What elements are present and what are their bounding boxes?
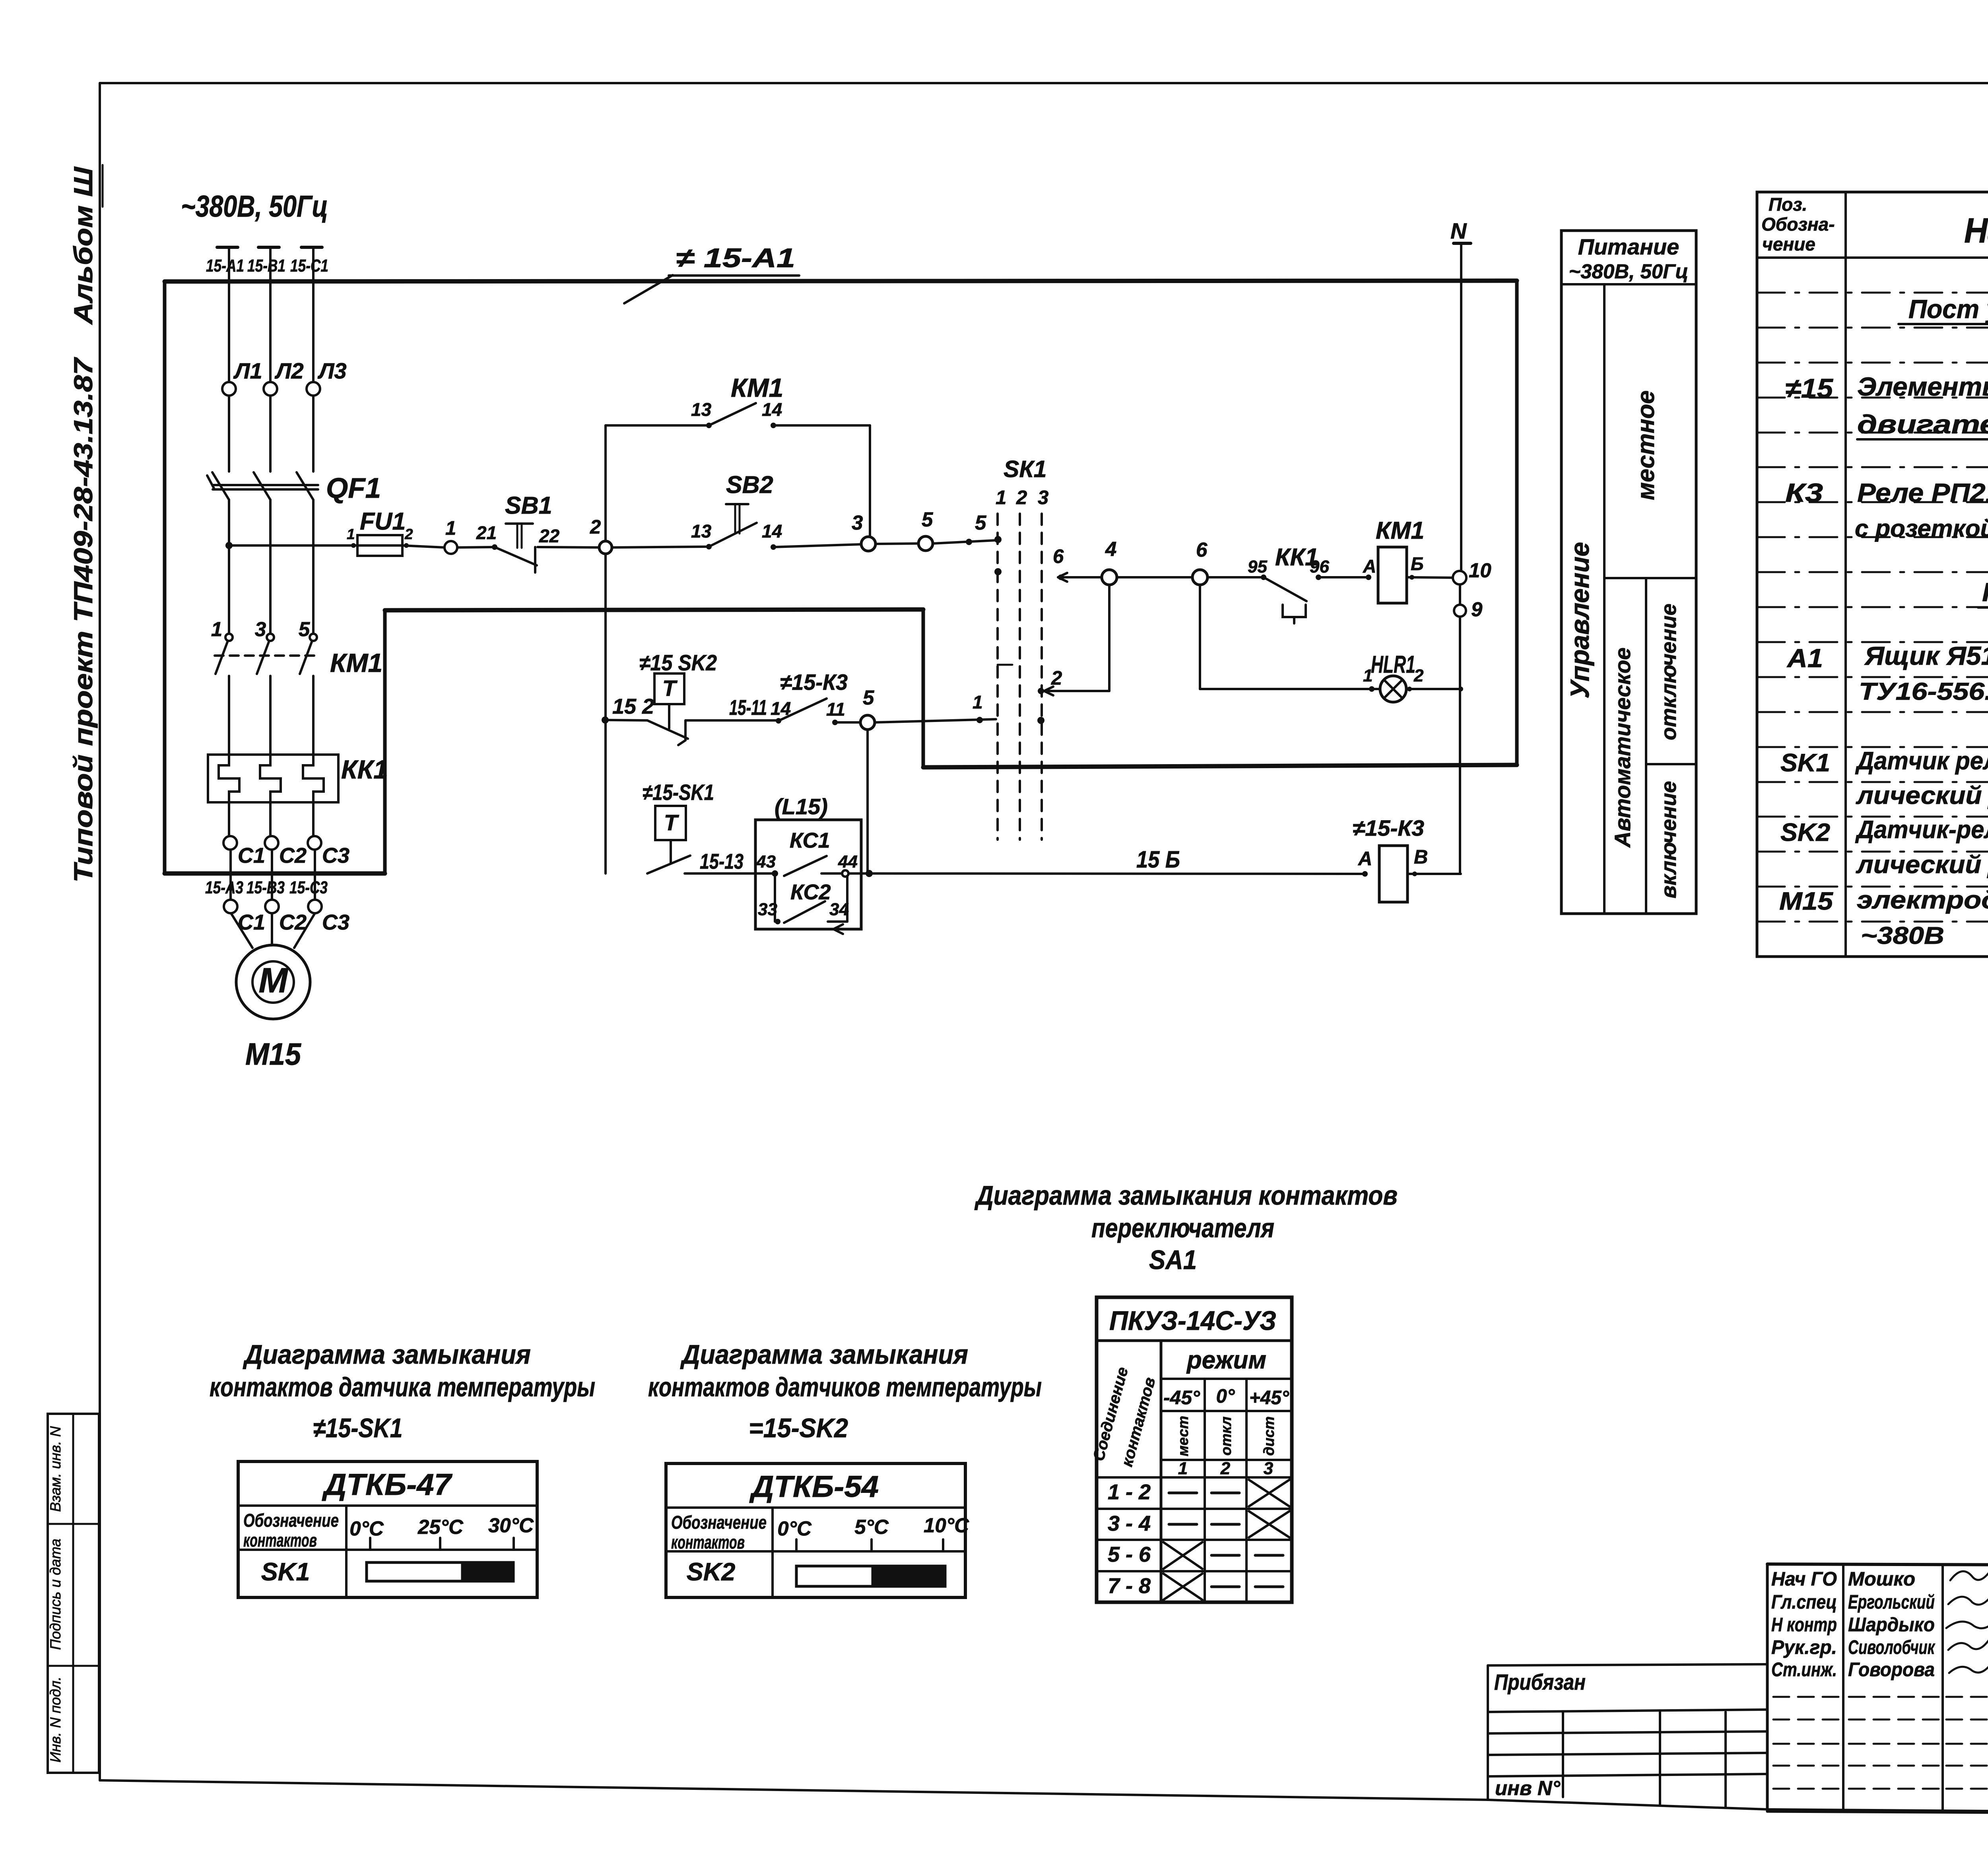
svg-text:КС1: КС1: [790, 829, 830, 852]
svg-text:Датчик реле температуры Бимета: Датчик реле температуры Биметал-: [1855, 747, 1988, 775]
svg-text:0°С: 0°С: [777, 1517, 812, 1540]
svg-text:1: 1: [996, 487, 1006, 508]
svg-text:лический ДТКБ-47 ТУ25-02-888-: лический ДТКБ-47 ТУ25-02-888-75Е: [1856, 782, 1988, 809]
svg-text:ТУ16-556.042-76: ТУ16-556.042-76: [1859, 678, 1988, 705]
svg-text:SK1: SK1: [261, 1558, 310, 1586]
svg-text:Питание: Питание: [1578, 234, 1679, 259]
svg-text:2: 2: [1220, 1459, 1231, 1478]
svg-text:-45°: -45°: [1163, 1387, 1200, 1409]
svg-text:SK2: SK2: [687, 1558, 736, 1586]
svg-text:13: 13: [691, 399, 712, 420]
svg-text:15-В1: 15-В1: [247, 256, 285, 276]
svg-text:Л3: Л3: [317, 358, 347, 383]
svg-text:5 - 6: 5 - 6: [1108, 1543, 1151, 1566]
svg-text:Диаграмма замыкания: Диаграмма замыкания: [680, 1339, 968, 1370]
svg-text:HLR1: HLR1: [1371, 651, 1415, 678]
svg-text:Ергольский: Ергольский: [1848, 1591, 1935, 1613]
svg-text:Б: Б: [1411, 553, 1424, 574]
svg-text:N: N: [1450, 218, 1467, 243]
svg-text:1: 1: [347, 526, 355, 542]
svg-text:Типовой проект ТП409-28-43.13.: Типовой проект ТП409-28-43.13.87 Альбом …: [68, 166, 98, 883]
svg-text:Управление: Управление: [1565, 542, 1594, 699]
svg-text:А1: А1: [1786, 643, 1823, 673]
svg-text:15-В3: 15-В3: [247, 878, 285, 897]
svg-text:контактов: контактов: [243, 1530, 317, 1551]
svg-text:Нач ГО: Нач ГО: [1771, 1568, 1837, 1590]
svg-text:6: 6: [1053, 546, 1064, 567]
svg-text:30°С: 30°С: [488, 1514, 534, 1537]
svg-text:Взам. инв. N: Взам. инв. N: [47, 1426, 64, 1512]
svg-text:М: М: [258, 961, 288, 1000]
svg-text:чение: чение: [1762, 234, 1815, 254]
svg-text:5: 5: [863, 686, 874, 709]
svg-text:3 - 4: 3 - 4: [1108, 1512, 1151, 1535]
svg-text:5: 5: [975, 511, 986, 534]
svg-text:SA1: SA1: [1149, 1245, 1197, 1275]
svg-text:13: 13: [691, 521, 712, 541]
svg-text:+45°: +45°: [1249, 1387, 1289, 1409]
svg-text:ПКУЗ-14С-УЗ: ПКУЗ-14С-УЗ: [1109, 1306, 1276, 1336]
svg-text:4: 4: [1105, 538, 1116, 560]
svg-text:≠15-SK1: ≠15-SK1: [643, 780, 714, 805]
svg-text:1: 1: [211, 618, 222, 640]
svg-text:7 - 8: 7 - 8: [1108, 1574, 1151, 1598]
svg-text:Прибязан: Прибязан: [1494, 1669, 1586, 1694]
svg-text:2: 2: [590, 516, 601, 538]
svg-text:3: 3: [1038, 487, 1048, 508]
svg-text:ДТКБ-54: ДТКБ-54: [749, 1470, 879, 1504]
svg-text:Диаграмма замыкания контактов: Диаграмма замыкания контактов: [975, 1180, 1398, 1211]
svg-text:SK2: SK2: [1780, 819, 1830, 846]
svg-text:~380В, 50Гц: ~380В, 50Гц: [181, 190, 328, 223]
svg-text:режим: режим: [1186, 1346, 1266, 1374]
svg-text:инв N°: инв N°: [1495, 1777, 1561, 1799]
svg-text:Реле РП21-220УХЛ4 ~220В,50Гц: Реле РП21-220УХЛ4 ~220В,50Гц: [1857, 478, 1988, 507]
svg-text:15 Б: 15 Б: [1136, 846, 1180, 873]
svg-text:SB2: SB2: [726, 471, 773, 498]
svg-text:10°С: 10°С: [924, 1514, 969, 1537]
svg-text:ДТКБ-47: ДТКБ-47: [322, 1468, 453, 1502]
svg-text:≠15-SK1: ≠15-SK1: [313, 1413, 403, 1443]
svg-text:Шардыко: Шардыко: [1848, 1614, 1935, 1636]
svg-text:двигателем М15: двигателем М15: [1857, 410, 1988, 439]
svg-text:(L15): (L15): [775, 794, 828, 819]
svg-text:КМ1: КМ1: [330, 648, 382, 677]
svg-text:3: 3: [255, 618, 266, 640]
svg-text:11: 11: [826, 699, 845, 720]
svg-text:≠15 SK2: ≠15 SK2: [639, 650, 717, 675]
svg-text:лический ДТКБ-54 ТУ25-02-888-: лический ДТКБ-54 ТУ25-02-888-75Е: [1856, 851, 1988, 879]
svg-text:КМ1: КМ1: [1376, 517, 1424, 544]
svg-text:15-А3: 15-А3: [205, 878, 243, 897]
svg-text:Мошко: Мошко: [1848, 1568, 1915, 1590]
svg-text:0°С: 0°С: [349, 1517, 384, 1540]
svg-text:Обозна-: Обозна-: [1761, 214, 1835, 235]
svg-text:откл: откл: [1218, 1417, 1234, 1456]
svg-text:Обозначение: Обозначение: [671, 1512, 767, 1533]
svg-text:По месту: По месту: [1982, 577, 1988, 607]
svg-text:44: 44: [838, 852, 858, 871]
svg-text:Инв. N подл.: Инв. N подл.: [47, 1677, 64, 1762]
svg-text:А: А: [1363, 556, 1376, 576]
svg-text:Сиволобчик: Сиволобчик: [1848, 1637, 1936, 1658]
svg-text:14: 14: [762, 521, 782, 541]
svg-text:25°С: 25°С: [417, 1516, 464, 1538]
svg-text:3: 3: [852, 511, 863, 534]
svg-text:15-13: 15-13: [700, 850, 744, 873]
svg-text:9: 9: [1471, 598, 1483, 621]
svg-text:С1: С1: [238, 844, 265, 868]
svg-text:96: 96: [1310, 557, 1329, 576]
svg-text:33: 33: [758, 900, 777, 919]
svg-text:FU1: FU1: [360, 508, 406, 535]
svg-text:SK1: SK1: [1780, 749, 1830, 777]
svg-text:С3: С3: [322, 844, 349, 868]
svg-text:Н контр: Н контр: [1771, 1614, 1837, 1636]
svg-text:22: 22: [539, 526, 560, 546]
svg-text:QF1: QF1: [326, 473, 381, 504]
svg-text:Рук.гр.: Рук.гр.: [1771, 1637, 1837, 1658]
svg-text:2: 2: [404, 526, 413, 542]
svg-text:местное: местное: [1632, 390, 1659, 500]
svg-text:15 2: 15 2: [612, 695, 654, 718]
svg-text:95: 95: [1248, 557, 1267, 576]
svg-text:Датчик-реле температуры Бимета: Датчик-реле температуры Биметал-: [1855, 816, 1988, 844]
svg-text:1: 1: [973, 692, 983, 712]
svg-text:5: 5: [299, 618, 310, 640]
svg-text:контактов датчика температуры: контактов датчика температуры: [210, 1372, 595, 1402]
svg-text:15-11: 15-11: [729, 696, 767, 720]
svg-text:В: В: [1414, 846, 1428, 868]
svg-text:21: 21: [476, 522, 497, 543]
svg-text:включение: включение: [1657, 781, 1681, 898]
svg-text:≠ 15-А1: ≠ 15-А1: [676, 243, 795, 273]
svg-text:контактов датчиков температуры: контактов датчиков температуры: [648, 1372, 1042, 1402]
svg-text:SК1: SК1: [1004, 456, 1046, 482]
svg-text:10: 10: [1469, 559, 1491, 582]
svg-text:Т: Т: [662, 675, 678, 701]
svg-text:Элементы управления электро-: Элементы управления электро-: [1857, 372, 1988, 401]
svg-text:Диаграмма замыкания: Диаграмма замыкания: [243, 1339, 531, 1370]
svg-text:с розеткой РП21УХЛ4 ТУ16-523: с розеткой РП21УХЛ4 ТУ16-523593-80: [1855, 515, 1988, 542]
svg-text:6: 6: [1196, 538, 1208, 561]
svg-text:М15: М15: [1779, 887, 1833, 915]
svg-text:2: 2: [1016, 487, 1027, 508]
svg-text:Поз.: Поз.: [1769, 194, 1807, 215]
svg-text:отключение: отключение: [1657, 604, 1681, 740]
svg-text:34: 34: [829, 900, 849, 919]
svg-text:Ящик Я5111-2274 УХЛ4: Ящик Я5111-2274 УХЛ4: [1864, 641, 1988, 670]
svg-text:15-С1: 15-С1: [290, 256, 328, 276]
svg-text:Л2: Л2: [274, 358, 304, 383]
svg-text:1: 1: [1178, 1459, 1188, 1478]
svg-text:≠15: ≠15: [1785, 373, 1833, 404]
svg-text:Гл.спец: Гл.спец: [1771, 1591, 1837, 1613]
svg-text:переключателя: переключателя: [1091, 1213, 1274, 1243]
svg-text:0°: 0°: [1216, 1386, 1235, 1407]
svg-text:Л1: Л1: [233, 358, 262, 383]
svg-text:43: 43: [756, 852, 776, 871]
svg-text:Наименование: Наименование: [1964, 211, 1988, 250]
svg-text:Т: Т: [664, 810, 679, 835]
svg-text:Пост управления N°1: Пост управления N°1: [1908, 294, 1988, 324]
svg-text:SB1: SB1: [505, 492, 552, 519]
svg-text:электродвигатель 0,55кВт: электродвигатель 0,55кВт: [1857, 886, 1988, 914]
svg-text:дист: дист: [1261, 1417, 1277, 1456]
svg-text:Ст.инж.: Ст.инж.: [1771, 1659, 1837, 1681]
svg-text:2: 2: [1051, 668, 1062, 689]
svg-text:Обозначение: Обозначение: [243, 1510, 339, 1531]
svg-text:Автоматическое: Автоматическое: [1610, 648, 1635, 848]
svg-text:КК1: КК1: [341, 755, 388, 784]
svg-text:=15-SK2: =15-SK2: [749, 1413, 848, 1443]
svg-text:1: 1: [445, 518, 456, 539]
svg-text:С2: С2: [279, 844, 307, 868]
svg-text:С3: С3: [322, 910, 349, 934]
svg-text:5: 5: [922, 508, 933, 531]
svg-text:Подпись и дата: Подпись и дата: [47, 1539, 64, 1650]
svg-text:15-С3: 15-С3: [289, 878, 328, 897]
svg-text:5°С: 5°С: [854, 1516, 889, 1538]
svg-text:С2: С2: [279, 910, 307, 934]
svg-text:~380В, 50Гц: ~380В, 50Гц: [1569, 260, 1688, 283]
svg-text:≠15-К3: ≠15-К3: [780, 670, 848, 695]
svg-text:15-А1: 15-А1: [206, 256, 244, 276]
svg-text:КМ1: КМ1: [731, 373, 783, 402]
svg-text:1 - 2: 1 - 2: [1108, 1480, 1151, 1504]
svg-text:Говорова: Говорова: [1848, 1659, 1935, 1681]
svg-text:~380В: ~380В: [1861, 922, 1944, 949]
svg-text:3: 3: [1264, 1459, 1273, 1478]
svg-text:мест: мест: [1175, 1416, 1191, 1456]
svg-text:≠15-К3: ≠15-К3: [1353, 815, 1424, 840]
svg-text:К3: К3: [1785, 478, 1823, 507]
svg-text:контактов: контактов: [671, 1532, 745, 1553]
svg-text:А: А: [1358, 848, 1372, 869]
svg-text:М15: М15: [245, 1036, 301, 1071]
